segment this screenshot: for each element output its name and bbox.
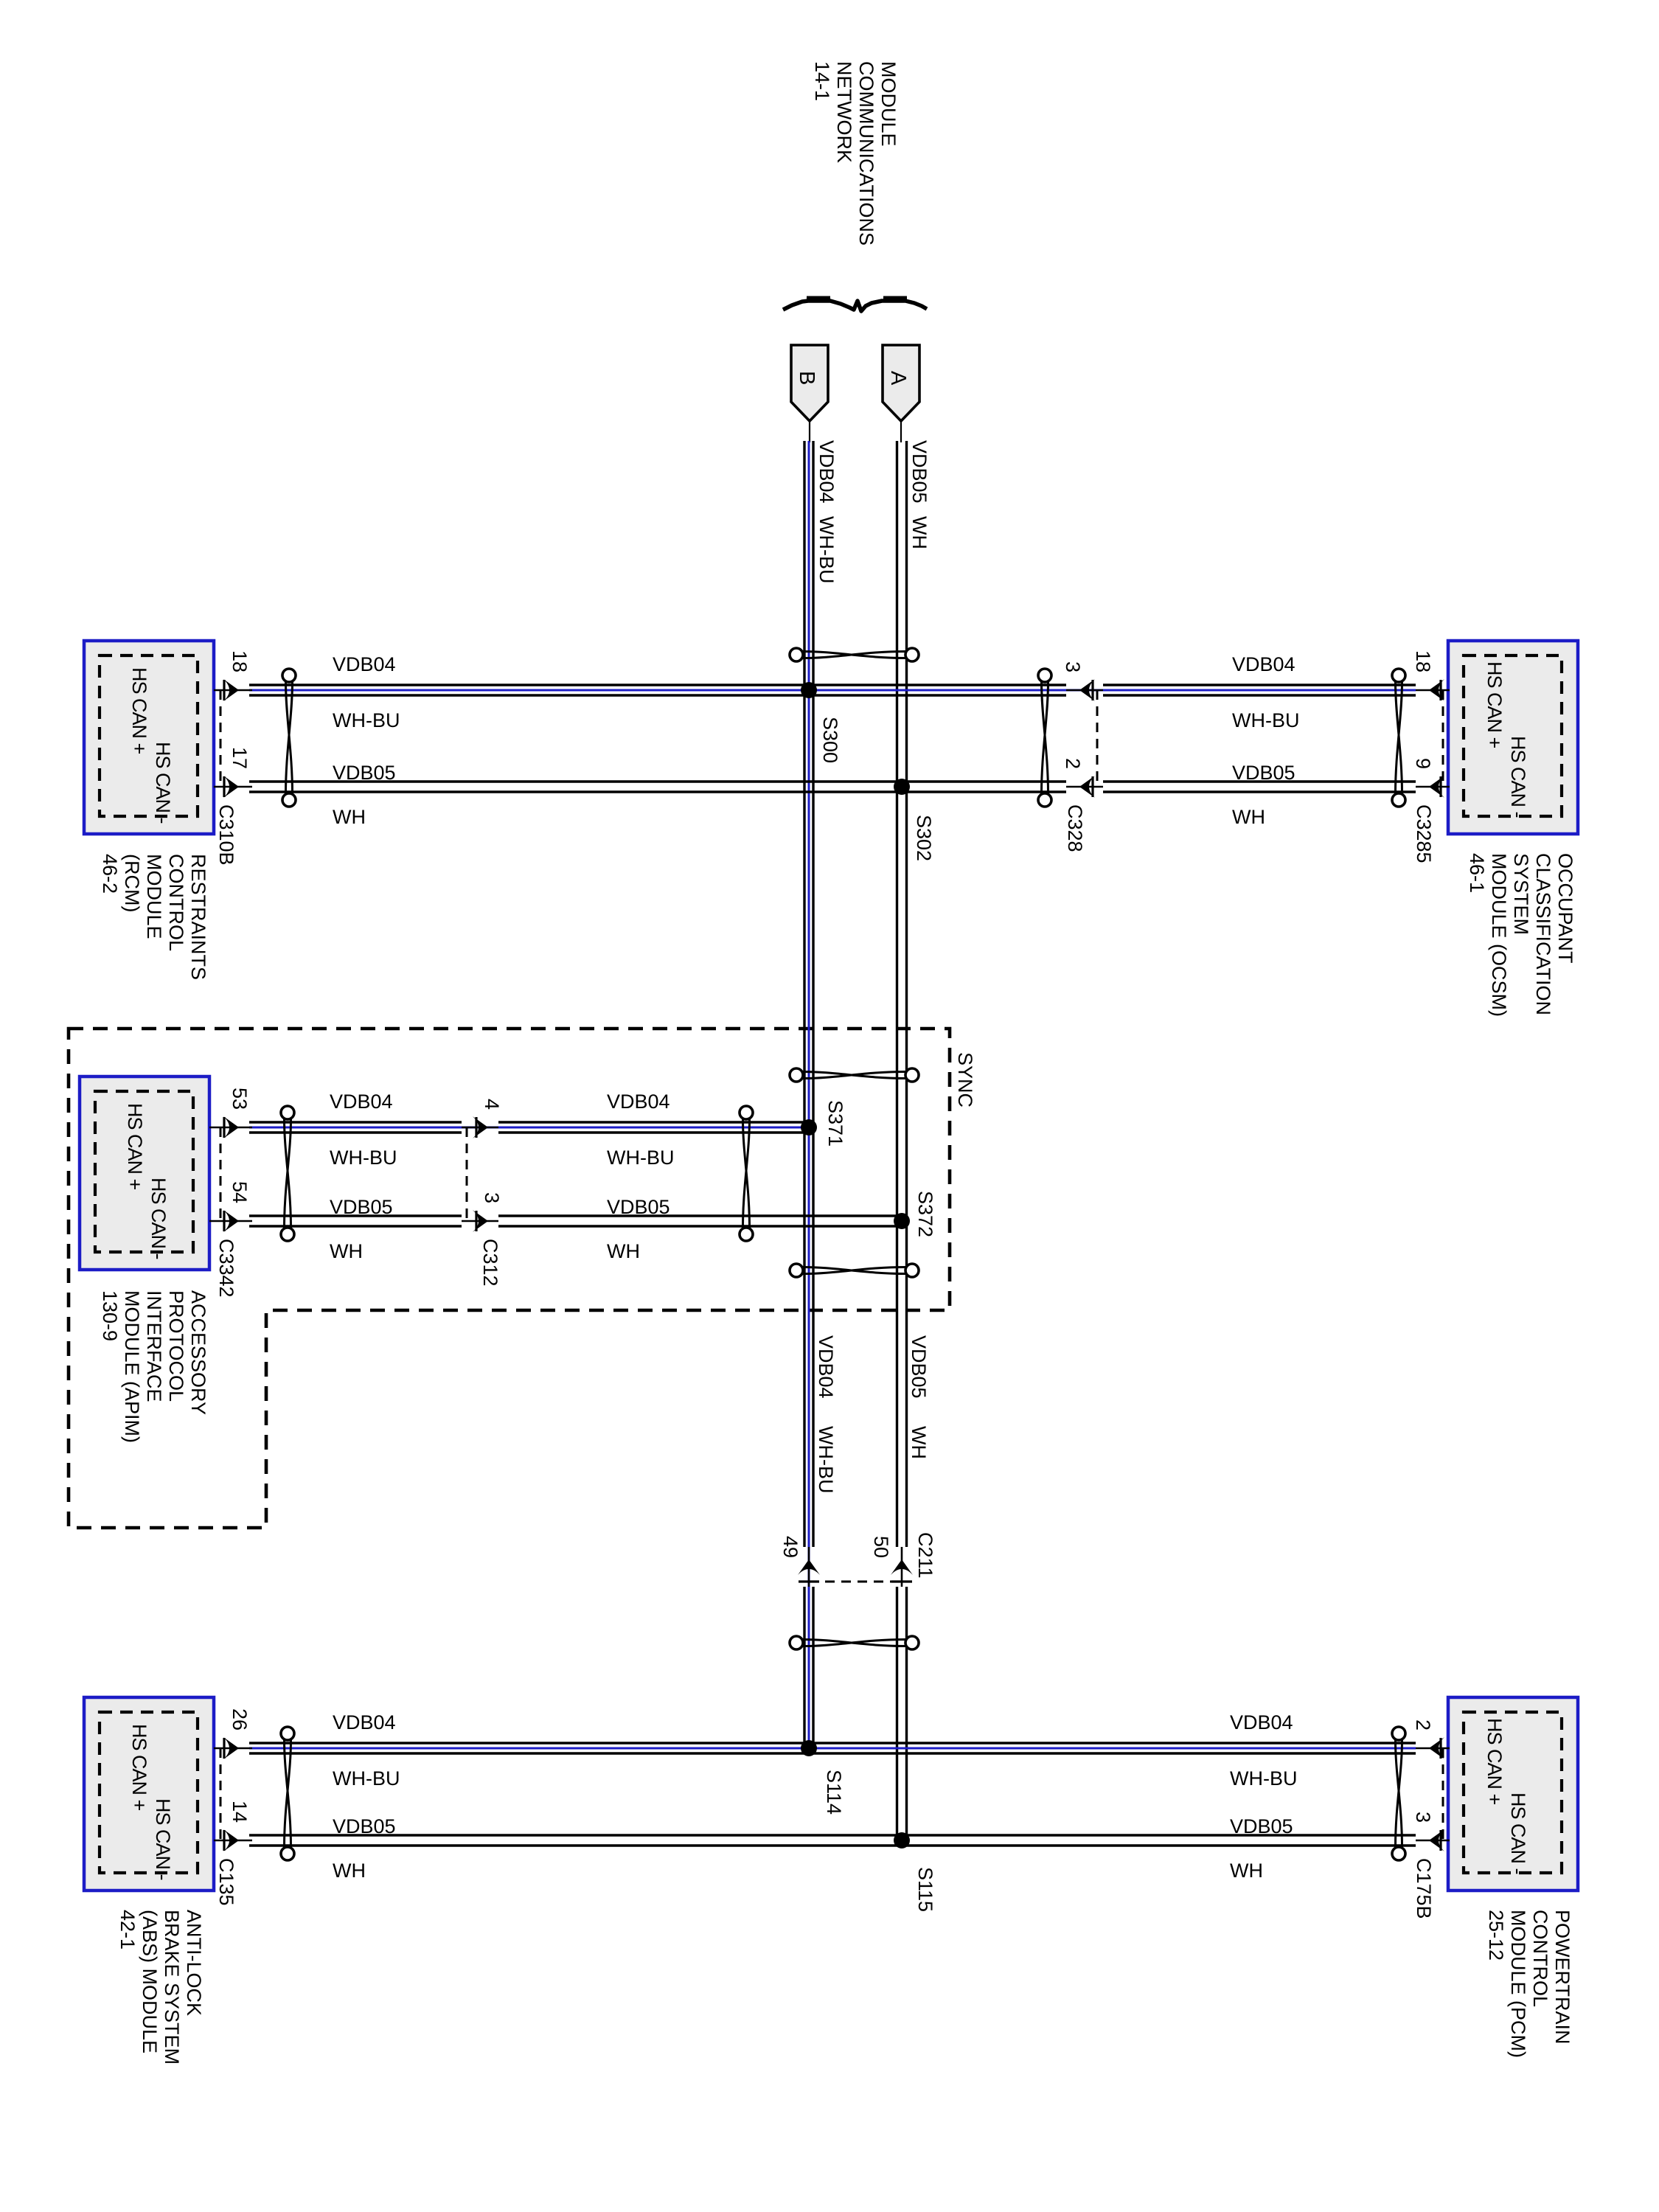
bus VDB05 WH vertical (right) [896,441,898,1547]
svg-text:HS CAN +: HS CAN + [124,1103,146,1190]
twisted pair row2 before splices [743,1119,750,1228]
svg-text:49: 49 [779,1536,801,1558]
SYNC module dashed boundary [69,1029,950,1528]
twisted pair on buses above S114 [803,1640,905,1646]
svg-text:18: 18 [1412,650,1434,672]
connector arrow B [791,345,828,421]
svg-text:VDB05: VDB05 [908,440,931,504]
wire row2 VDB04 WH-BU horizontal [249,1121,462,1123]
svg-text:WH: WH [1230,1860,1263,1882]
splice S115 [894,1832,910,1848]
svg-text:VDB04: VDB04 [1232,653,1295,675]
svg-text:C3342: C3342 [215,1239,237,1298]
wire row3 VDB04 WH-BU horizontal [249,1742,1416,1744]
svg-text:S115: S115 [914,1867,936,1912]
module ABS box [84,1697,214,1891]
svg-text:SYNC: SYNC [954,1052,976,1107]
module PCM box [1448,1697,1578,1891]
svg-text:2: 2 [1062,758,1084,769]
svg-text:WH: WH [908,516,931,549]
svg-text:54: 54 [229,1181,251,1203]
connector C211 (pins 49/50) [809,1581,902,1583]
svg-text:HS CAN -: HS CAN - [152,1798,174,1880]
connector C312 (pins 4/3) [466,1127,468,1221]
connector C3342 (APIM pins 53/54) [209,1127,252,1129]
svg-text:HS CAN +: HS CAN + [128,1724,150,1811]
twisted pair row2 near APIM [285,1119,291,1228]
svg-text:A: A [886,371,910,386]
svg-text:WH: WH [607,1240,640,1262]
wire row1 VDB04 WH-BU horizontal [249,684,1066,686]
svg-text:C3285: C3285 [1413,804,1435,863]
svg-text:C310B: C310B [215,804,237,866]
twisted pair on buses at SYNC top [803,1072,905,1079]
module OCSM box [1448,641,1578,834]
svg-text:4: 4 [481,1099,503,1110]
svg-text:VDB04: VDB04 [333,653,396,675]
twisted pair row1 near RCM [286,682,293,793]
svg-text:S300: S300 [819,717,841,763]
svg-text:C211: C211 [914,1532,936,1579]
svg-text:S371: S371 [824,1100,846,1147]
connector C328 (pins 3/2) [1096,690,1099,787]
svg-text:VDB04: VDB04 [330,1091,393,1113]
svg-text:3: 3 [1412,1812,1434,1823]
twisted pair at C328 [1042,682,1048,793]
svg-text:HS CAN +: HS CAN + [1484,1718,1506,1805]
module APIM box [80,1077,209,1270]
twisted pair near OCSM [1396,682,1402,793]
svg-text:17: 17 [229,747,251,769]
bus VDB04 WH-BU vertical (left) [803,441,805,1547]
svg-text:26: 26 [229,1708,251,1731]
svg-text:50: 50 [870,1536,892,1558]
svg-text:14: 14 [229,1801,251,1823]
svg-text:WH-BU: WH-BU [333,709,400,731]
svg-text:HS CAN -: HS CAN - [1507,1792,1529,1874]
svg-text:53: 53 [229,1088,251,1110]
svg-text:HS CAN +: HS CAN + [1484,661,1506,748]
twisted pair row3 near ABS [285,1740,291,1847]
svg-text:HS CAN -: HS CAN - [1507,736,1529,818]
svg-text:C328: C328 [1064,804,1086,852]
svg-text:WH: WH [333,1860,366,1882]
svg-text:WH: WH [1232,806,1265,828]
svg-text:WH: WH [908,1426,930,1459]
splice S371 [801,1119,817,1135]
connector C135 (ABS pins 26/14) [214,1747,252,1750]
module RCM box [84,641,214,834]
svg-text:HS CAN -: HS CAN - [147,1178,170,1259]
svg-text:VDB05: VDB05 [1232,762,1295,784]
splice S302 [894,779,910,795]
svg-text:VDB04: VDB04 [1230,1711,1293,1733]
wire stub from A [900,421,902,442]
svg-text:VDB04: VDB04 [607,1091,670,1113]
twisted pair row3 near PCM [1396,1740,1402,1847]
svg-text:WH: WH [330,1240,363,1262]
svg-text:HS CAN +: HS CAN + [128,667,150,754]
svg-text:VDB05: VDB05 [333,1815,396,1837]
svg-text:WH-BU: WH-BU [1230,1767,1297,1790]
svg-text:WH-BU: WH-BU [815,1426,837,1493]
svg-text:VDB04: VDB04 [333,1711,396,1733]
svg-text:WH-BU: WH-BU [607,1147,674,1169]
svg-text:3: 3 [1062,661,1084,672]
svg-text:S302: S302 [913,815,935,861]
connector C310B (RCM pins 18/17) [214,689,252,692]
splice S300 [801,682,817,698]
svg-text:C175B: C175B [1413,1858,1435,1919]
svg-text:WH-BU: WH-BU [1232,709,1299,731]
svg-text:WH: WH [333,806,366,828]
svg-text:S372: S372 [914,1191,936,1237]
svg-text:9: 9 [1412,758,1434,769]
svg-text:VDB05: VDB05 [908,1335,930,1399]
svg-text:WH-BU: WH-BU [815,516,838,583]
svg-text:18: 18 [229,650,251,672]
connector arrow A [883,345,919,421]
wire stub from B [809,421,810,442]
splice S372 [894,1213,910,1229]
twisted pair on buses at SYNC bottom [803,1267,905,1274]
wire row3 VDB05 WH horizontal [249,1834,1416,1836]
connector C3285 (OCSM pins 18/9) [1416,689,1450,692]
connector C175B (PCM pins 2/3) [1416,1747,1450,1750]
svg-text:C135: C135 [215,1858,237,1906]
svg-text:VDB05: VDB05 [333,762,396,784]
wire row1 VDB05 WH horizontal [249,780,1066,782]
splice S114 [801,1740,817,1756]
svg-text:VDB04: VDB04 [815,440,838,504]
svg-text:2: 2 [1412,1719,1434,1731]
svg-text:S114: S114 [823,1770,845,1815]
svg-text:WH-BU: WH-BU [333,1767,400,1790]
svg-text:VDB04: VDB04 [815,1335,837,1399]
svg-text:B: B [795,371,818,385]
wire row2 VDB05 WH horizontal [249,1214,462,1217]
svg-text:WH-BU: WH-BU [330,1147,397,1169]
svg-text:VDB05: VDB05 [330,1196,393,1218]
svg-text:HS CAN -: HS CAN - [152,742,174,824]
svg-text:C312: C312 [479,1239,501,1287]
svg-text:VDB05: VDB05 [1230,1815,1293,1837]
svg-text:3: 3 [481,1192,503,1203]
twisted pair on buses above S300 [803,652,905,658]
svg-text:VDB05: VDB05 [607,1196,670,1218]
bus continuation break symbol [783,301,927,311]
